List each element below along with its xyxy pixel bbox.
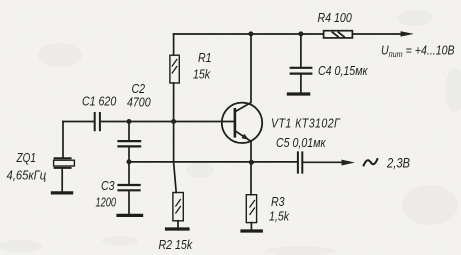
svg-text:1200: 1200 (96, 196, 117, 210)
svg-text:VT1 КТ3102Г: VT1 КТ3102Г (271, 117, 341, 131)
svg-text:2,3В: 2,3В (386, 155, 410, 170)
svg-text:C4 0,15мк: C4 0,15мк (318, 64, 368, 78)
svg-text:4,65кГц: 4,65кГц (7, 168, 47, 183)
svg-text:C1 620: C1 620 (82, 95, 117, 109)
svg-text:15k: 15k (193, 68, 211, 82)
svg-text:1,5k: 1,5k (269, 210, 290, 224)
svg-text:R4 100: R4 100 (318, 11, 353, 25)
svg-text:ZQ1: ZQ1 (16, 152, 36, 165)
svg-text:C2: C2 (132, 82, 146, 96)
svg-text:R1: R1 (198, 51, 212, 65)
svg-text:C5 0,01мк: C5 0,01мк (276, 136, 326, 150)
svg-text:4700: 4700 (127, 96, 151, 110)
svg-text:R3: R3 (271, 195, 285, 209)
svg-text:R2 15k: R2 15k (159, 238, 194, 252)
svg-text:C3: C3 (101, 179, 115, 193)
